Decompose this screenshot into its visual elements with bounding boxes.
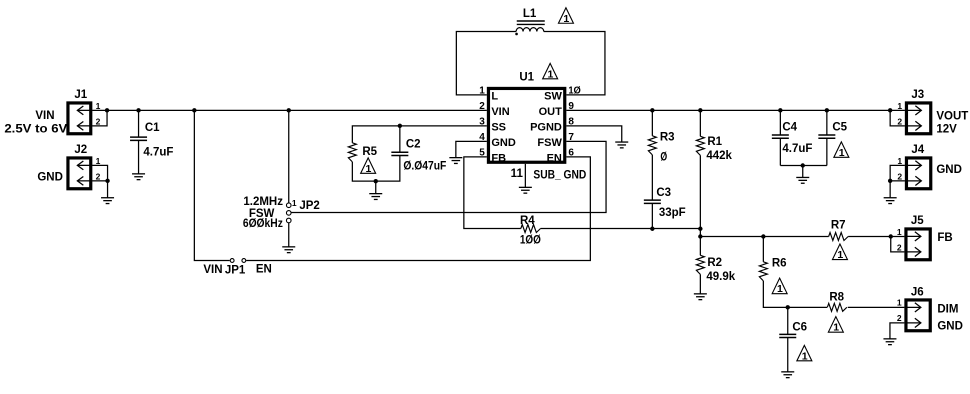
wire R7 to J5 (848, 236, 904, 238)
label VIN (J1) (4, 110, 67, 136)
svg-text:SS: SS (491, 121, 506, 133)
svg-text:C2: C2 (406, 138, 421, 150)
svg-text:1: 1 (839, 147, 845, 159)
svg-text:R7: R7 (831, 219, 846, 231)
svg-text:R8: R8 (829, 291, 844, 303)
ground C1 (132, 174, 145, 180)
svg-text:1: 1 (96, 156, 101, 166)
node R1 bottom junction (698, 227, 702, 231)
svg-text:GND: GND (937, 320, 963, 332)
svg-text:FB: FB (491, 152, 506, 164)
svg-text:12V: 12V (936, 123, 957, 135)
node C6 junction (786, 305, 790, 309)
svg-text:R3: R3 (660, 131, 675, 143)
wire J1 pin2 tie (92, 110, 107, 126)
U1 left pin numbers (479, 86, 485, 159)
wire C6 top (787, 307, 789, 334)
ground C6 (781, 372, 794, 378)
svg-text:2: 2 (96, 171, 101, 181)
svg-text:R2: R2 (707, 257, 722, 269)
wire R1 top (699, 110, 701, 136)
svg-text:VIN: VIN (491, 106, 509, 118)
svg-text:U1: U1 (519, 71, 534, 83)
op-amp U1 box (488, 88, 564, 162)
wire R3 top (651, 110, 653, 136)
J2 pin numbers (96, 156, 101, 182)
wire FB out net (700, 236, 828, 238)
ground J4 (884, 198, 897, 204)
svg-text:442k: 442k (706, 150, 732, 162)
svg-text:4.7uF: 4.7uF (782, 143, 812, 155)
svg-text:R1: R1 (707, 136, 722, 148)
svg-text:J3: J3 (911, 89, 924, 101)
connector J1 (68, 89, 92, 134)
svg-text:Ø.Ø47uF: Ø.Ø47uF (403, 160, 446, 172)
capacitor C3 (644, 187, 686, 219)
svg-text:2.5V to 6V: 2.5V to 6V (4, 123, 67, 135)
capacitor C5 (818, 121, 847, 138)
label U1 (519, 71, 534, 83)
node JP1 rail junction (192, 108, 196, 112)
ground JP2 (282, 247, 295, 253)
svg-text:JP2: JP2 (299, 200, 319, 212)
resistor R3 (648, 131, 674, 163)
warning triangle L1 (558, 8, 573, 25)
svg-text:2: 2 (96, 116, 101, 126)
wire SS ground stem (375, 181, 377, 194)
U1 left pin names (491, 90, 515, 164)
J3 pin numbers (897, 101, 902, 127)
connector J5 (904, 215, 930, 260)
warning triangle R6 (772, 278, 787, 295)
svg-text:1ØØ: 1ØØ (520, 234, 541, 246)
resistor R8 (827, 291, 847, 311)
svg-text:R6: R6 (772, 257, 787, 269)
svg-text:4.7uF: 4.7uF (143, 146, 173, 158)
svg-text:VOUT: VOUT (936, 110, 968, 122)
node C2 SS junction (398, 124, 402, 128)
jumper JP2 (286, 203, 291, 223)
svg-text:1: 1 (897, 227, 902, 237)
wire GND pin4 (456, 141, 487, 157)
svg-text:49.9k: 49.9k (706, 271, 735, 283)
node J4 pin2 junction (888, 179, 892, 183)
capacitor C6 (779, 321, 807, 337)
svg-text:33pF: 33pF (659, 207, 686, 219)
svg-text:3: 3 (479, 117, 485, 128)
wire R5 bottom (352, 155, 400, 181)
svg-text:VIN: VIN (35, 110, 54, 122)
svg-text:1.2MHz: 1.2MHz (243, 196, 283, 208)
svg-text:PGND: PGND (530, 121, 562, 133)
node C5 rail junction (825, 108, 829, 112)
svg-text:J2: J2 (74, 144, 87, 156)
capacitor C2 (391, 138, 446, 172)
J6 pin numbers (897, 297, 902, 323)
node C1 rail junction (136, 108, 140, 112)
wire C3 bottom (651, 203, 653, 228)
svg-text:J5: J5 (911, 215, 924, 227)
warning triangle R7 (832, 244, 847, 261)
svg-text:C1: C1 (145, 122, 160, 134)
J4 pin numbers (897, 156, 902, 182)
capacitor C4 (772, 121, 813, 155)
svg-text:L1: L1 (523, 8, 537, 20)
wire rail to JP1-VIN (194, 110, 229, 260)
wire FSW net (291, 141, 606, 212)
wire C1 bottom (138, 140, 140, 174)
wire OUT rail (566, 109, 905, 111)
node SS ground junction (374, 179, 378, 183)
connector J4 (905, 144, 931, 189)
wire C4 bottom (779, 138, 781, 165)
svg-text:2: 2 (897, 171, 902, 181)
wire R4 to R1 bottom (541, 228, 701, 230)
resistor R1 (696, 136, 732, 162)
svg-text:4: 4 (479, 132, 485, 143)
ground J6 (883, 339, 896, 345)
svg-text:C3: C3 (656, 187, 671, 199)
svg-text:1: 1 (292, 198, 297, 208)
svg-text:2: 2 (897, 313, 902, 323)
capacitor C1 (130, 122, 173, 159)
wire C4C5 ground stem (802, 166, 804, 178)
labels JP1 (203, 263, 271, 276)
svg-text:1: 1 (837, 249, 843, 261)
node R6 top junction (761, 234, 765, 238)
svg-text:11: 11 (511, 168, 524, 180)
warning triangle C5 (834, 142, 849, 159)
label GND (J2) (37, 171, 63, 183)
svg-text:2: 2 (479, 101, 485, 112)
labels DIM GND (J6) (937, 303, 963, 332)
svg-text:1: 1 (897, 101, 902, 111)
svg-text:1: 1 (548, 68, 554, 80)
warning triangle R8 (828, 317, 843, 334)
wire C1 top (138, 110, 140, 137)
svg-text:Ø: Ø (660, 151, 667, 163)
node C4C5 ground junction (801, 163, 805, 167)
J1 pin numbers (96, 101, 101, 127)
wire L1 to SW pin10 (544, 32, 605, 95)
svg-text:R5: R5 (362, 146, 377, 158)
wire R3 to C3 (651, 155, 653, 200)
svg-text:1: 1 (833, 322, 839, 334)
wire U1 pin11 (524, 164, 526, 188)
svg-text:J6: J6 (911, 286, 924, 298)
wire C5 top (826, 110, 828, 135)
resistor R4 (520, 215, 541, 247)
resistor R7 (829, 219, 849, 240)
svg-text:1: 1 (897, 156, 902, 166)
ground U1 pin8 (615, 142, 628, 148)
label SUB_GND (533, 169, 586, 181)
node R4 C3 junction (650, 227, 654, 231)
connector J2 (68, 144, 92, 189)
svg-text:J4: J4 (911, 144, 924, 156)
warning triangle C6 (797, 345, 812, 362)
label FB (J5) (937, 232, 952, 244)
svg-text:R4: R4 (520, 215, 535, 227)
wire R6 bottom to DIM (763, 281, 827, 308)
warning triangle U1 (543, 63, 558, 80)
svg-text:JP1: JP1 (225, 264, 246, 276)
node R3 rail junction (650, 108, 654, 112)
svg-text:C4: C4 (782, 121, 797, 133)
wire J4 pins (890, 165, 905, 197)
svg-text:VIN: VIN (203, 264, 222, 276)
svg-text:C6: C6 (792, 321, 807, 333)
node C4 rail junction (778, 108, 782, 112)
resistor R6 (759, 257, 786, 281)
labels VOUT 12V (J3) (936, 110, 968, 135)
svg-text:6ØØkHz: 6ØØkHz (243, 218, 283, 230)
svg-text:SW: SW (544, 90, 562, 102)
node J3 tie junction (888, 108, 892, 112)
svg-text:7: 7 (568, 132, 574, 143)
svg-text:EN: EN (256, 263, 272, 275)
wire PGND pin8 (566, 126, 621, 142)
connector J6 (904, 286, 930, 330)
wire J2 pins (92, 165, 107, 197)
wire rail to JP2 pin1 (288, 110, 290, 203)
wire R8 to J6 (848, 306, 905, 308)
svg-text:1: 1 (563, 13, 569, 25)
svg-text:5: 5 (479, 148, 485, 159)
wire C4 C5 bottom (780, 165, 827, 167)
jumper JP1 (230, 259, 246, 263)
svg-text:C5: C5 (832, 121, 847, 133)
node R1 rail junction (698, 108, 702, 112)
ground C4 C5 (796, 177, 809, 183)
node JP2 rail junction (287, 108, 291, 112)
labels JP2 (243, 196, 320, 230)
ground U1 pin11 (519, 187, 532, 193)
svg-text:1: 1 (777, 283, 783, 295)
wire JP2 pin3 to ground (288, 223, 290, 247)
wire C4 top (779, 110, 781, 135)
J5 pin numbers (897, 227, 902, 253)
wire FB pin5 (464, 157, 521, 229)
ground J2 (101, 198, 114, 204)
svg-text:DIM: DIM (937, 303, 958, 315)
wire EN net (246, 157, 590, 261)
svg-text:GND: GND (936, 164, 962, 176)
JP2 pin1 number (292, 198, 297, 208)
svg-text:EN: EN (547, 152, 562, 164)
svg-text:6: 6 (568, 148, 574, 159)
label GND (J4) (936, 164, 962, 176)
svg-text:2: 2 (897, 242, 902, 252)
wire VIN rail (92, 109, 487, 111)
wire SS net (352, 126, 487, 143)
node J5 tie junction (889, 234, 893, 238)
ground R2 (694, 294, 707, 300)
svg-text:OUT: OUT (539, 106, 563, 118)
U1 right pin names (530, 90, 562, 164)
wire C5 bottom (826, 138, 828, 165)
wire R2 bottom (699, 274, 701, 294)
wire C6 bottom (787, 338, 789, 372)
resistor R5 (348, 143, 377, 162)
svg-text:1: 1 (897, 297, 902, 307)
resistor R2 (696, 255, 735, 283)
svg-text:L: L (491, 90, 498, 102)
svg-text:1: 1 (802, 350, 808, 362)
wire J3 pin2 tie (890, 110, 905, 126)
U1 pin 11 number (511, 168, 524, 180)
svg-text:GND: GND (37, 171, 63, 183)
node J1 junction (105, 108, 109, 112)
node FB out junction (698, 234, 702, 238)
svg-text:1: 1 (96, 101, 101, 111)
svg-text:J1: J1 (74, 89, 87, 101)
connector J3 (905, 89, 931, 134)
ground R5 C2 (369, 194, 382, 200)
inductor L1 (515, 8, 545, 35)
wire L pin1 to L1 (456, 32, 516, 95)
svg-text:FSW: FSW (537, 137, 562, 149)
svg-text:1: 1 (366, 163, 372, 175)
svg-text:FB: FB (937, 232, 952, 244)
wire R1 bottom to R2 (699, 155, 701, 255)
svg-text:GND: GND (491, 137, 515, 149)
wire J6 pin2 to ground (890, 323, 904, 339)
wire R6 top (762, 237, 764, 262)
wire J5 pin2 tie (891, 237, 905, 252)
wire C2 top (399, 126, 401, 152)
node J2 pin2 junction (105, 179, 109, 183)
warning triangle R5 (361, 158, 376, 175)
svg-text:2: 2 (897, 116, 902, 126)
ground U1 pin4 (449, 158, 462, 164)
U1 right pin numbers (568, 86, 581, 159)
svg-text:SUB_ GND: SUB_ GND (533, 169, 586, 181)
